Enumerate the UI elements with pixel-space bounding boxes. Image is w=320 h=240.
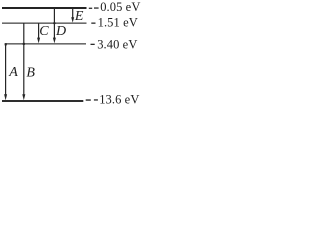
dashed link to -0.05 eV label bbox=[89, 8, 92, 9]
dashed link to -13.6 eV label bbox=[86, 99, 91, 101]
energy level line n=2 (-3.40 eV) bbox=[5, 43, 86, 44]
transition arrow B (-1.51 to -13.6) bbox=[22, 23, 25, 100]
svg-text:A: A bbox=[8, 65, 18, 80]
energy level line n=4 (-0.05 eV) bbox=[2, 7, 87, 9]
svg-text:D: D bbox=[55, 24, 66, 39]
minus sign of -0.05 eV bbox=[94, 7, 99, 8]
energy level line n=1 (-13.6 eV) bbox=[2, 100, 83, 102]
svg-text:3.40 eV: 3.40 eV bbox=[97, 37, 137, 51]
svg-text:13.6 eV: 13.6 eV bbox=[99, 93, 139, 107]
minus sign of -13.6 eV bbox=[94, 99, 98, 100]
minus sign of -3.40 eV bbox=[91, 44, 95, 45]
svg-text:1.51 eV: 1.51 eV bbox=[98, 16, 138, 30]
minus sign of -1.51 eV bbox=[91, 23, 95, 24]
svg-text:0.05 eV: 0.05 eV bbox=[100, 0, 140, 14]
svg-text:C: C bbox=[39, 24, 49, 39]
transition arrow C (-1.51 to -3.40) bbox=[37, 23, 40, 43]
transition arrow E (-0.05 to -1.51) bbox=[71, 9, 74, 23]
transition arrow D (-0.05 to -3.40) bbox=[53, 9, 56, 44]
transition arrow A (-3.40 to -13.6) bbox=[4, 43, 7, 100]
svg-text:E: E bbox=[74, 9, 84, 24]
svg-text:B: B bbox=[26, 66, 35, 81]
energy level line n=3 (-1.51 eV) bbox=[2, 23, 87, 24]
